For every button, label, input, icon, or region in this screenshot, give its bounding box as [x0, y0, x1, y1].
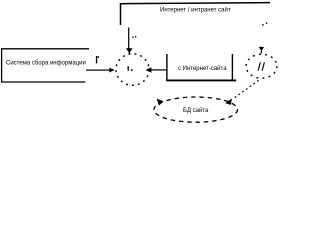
label P — [96, 56, 99, 63]
node L circle dotted — [116, 54, 149, 86]
wire dashed arrow mu to ellipse — [225, 80, 258, 105]
wire arrowhead node L to ellipse — [157, 99, 164, 106]
svg-text:Интернет / интранет сайт: Интернет / интранет сайт — [160, 6, 231, 13]
wire arrow process box to node L — [146, 67, 167, 72]
wire stub arrow into mu — [259, 47, 264, 54]
node mu letter — [258, 62, 264, 70]
node L letter — [128, 66, 133, 71]
node mu circle dotted — [246, 54, 277, 78]
wire arrow P box to node — [86, 68, 115, 73]
node label dots i — [132, 36, 136, 38]
label dots r near mu — [262, 22, 267, 25]
svg-text:БД сайта: БД сайта — [183, 107, 209, 114]
box process middle (open top) — [166, 54, 236, 80]
wire arrow into node L top — [126, 28, 133, 55]
svg-text:с Интернет-сайта: с Интернет-сайта — [178, 65, 227, 72]
wire feedback line top — [121, 3, 271, 25]
ellipse store dashed — [154, 97, 238, 122]
box source left — [2, 49, 89, 82]
svg-text:Система сбора информации: Система сбора информации — [6, 60, 86, 66]
